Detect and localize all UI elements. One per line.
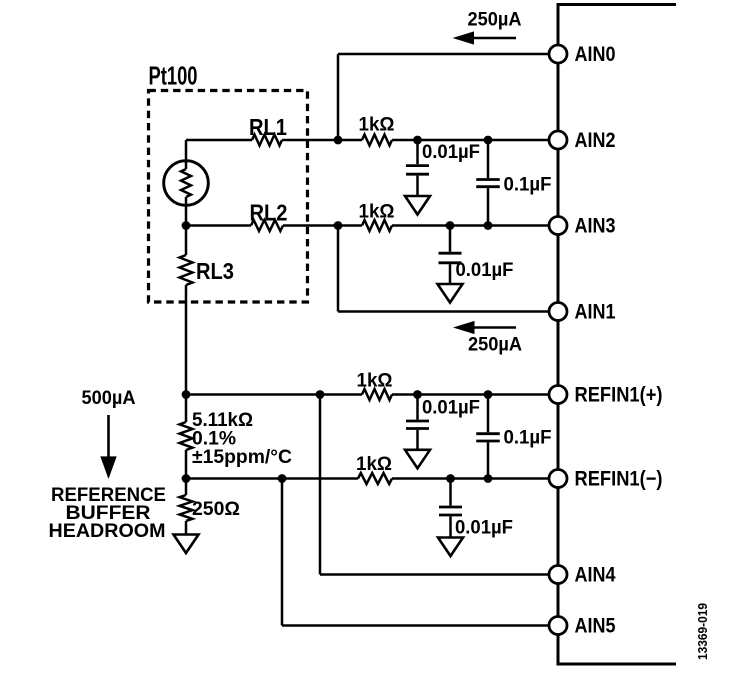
svg-text:AIN3: AIN3	[575, 215, 616, 238]
svg-text:1kΩ: 1kΩ	[357, 371, 393, 392]
svg-text:13369-019: 13369-019	[695, 603, 710, 660]
svg-text:0.01µF: 0.01µF	[422, 398, 480, 419]
svg-text:RL2: RL2	[250, 200, 288, 226]
svg-text:0.1µF: 0.1µF	[504, 428, 552, 449]
svg-text:AIN5: AIN5	[575, 615, 616, 638]
svg-text:0.01µF: 0.01µF	[455, 518, 513, 539]
svg-text:250Ω: 250Ω	[192, 499, 240, 520]
svg-text:250µA: 250µA	[468, 10, 522, 31]
svg-text:0.01µF: 0.01µF	[422, 142, 480, 163]
svg-text:REFIN1(+): REFIN1(+)	[575, 384, 663, 407]
svg-text:AIN0: AIN0	[575, 43, 616, 66]
svg-text:AIN1: AIN1	[575, 301, 616, 324]
svg-text:500µA: 500µA	[82, 388, 136, 409]
svg-text:RL1: RL1	[249, 114, 287, 140]
svg-text:±15ppm/°C: ±15ppm/°C	[192, 447, 292, 468]
svg-text:1kΩ: 1kΩ	[356, 454, 392, 475]
svg-text:REFIN1(−): REFIN1(−)	[575, 468, 663, 491]
svg-text:1kΩ: 1kΩ	[359, 202, 395, 223]
svg-text:AIN2: AIN2	[575, 129, 616, 152]
svg-text:RL3: RL3	[196, 258, 234, 284]
svg-text:250µA: 250µA	[468, 335, 522, 356]
svg-text:0.01µF: 0.01µF	[456, 260, 514, 281]
svg-text:HEADROOM: HEADROOM	[49, 521, 166, 542]
svg-text:1kΩ: 1kΩ	[359, 115, 395, 136]
svg-text:Pt100: Pt100	[149, 61, 198, 91]
svg-text:0.1µF: 0.1µF	[504, 175, 552, 196]
svg-text:AIN4: AIN4	[575, 564, 616, 587]
